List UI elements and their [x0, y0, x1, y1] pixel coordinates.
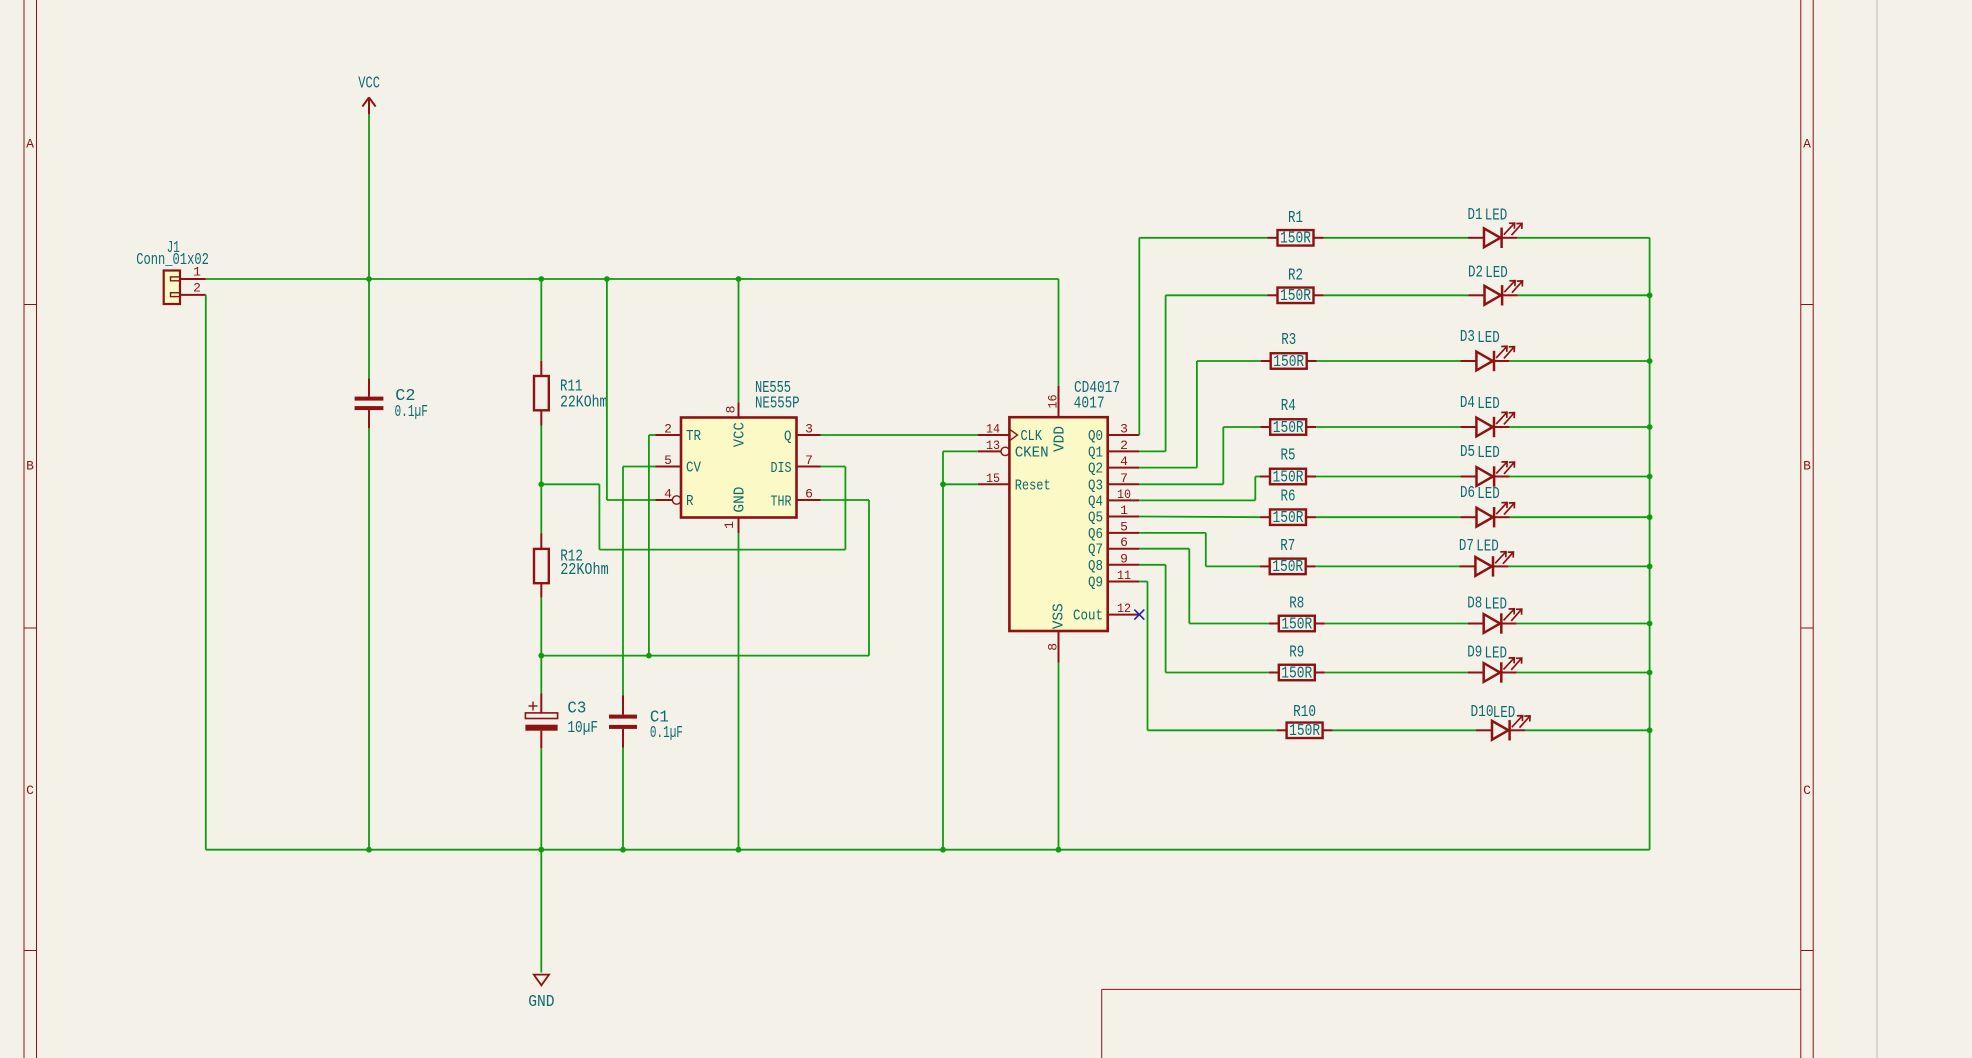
svg-text:C3: C3 [567, 700, 586, 719]
svg-text:TR: TR [686, 428, 701, 445]
junction gnd bus C2 [366, 847, 372, 853]
svg-text:6: 6 [1120, 535, 1128, 550]
svg-text:R2: R2 [1288, 266, 1303, 285]
svg-text:14: 14 [986, 422, 1000, 437]
svg-text:LED: LED [1485, 596, 1508, 615]
svg-text:THR: THR [771, 494, 792, 511]
wire [1324, 237, 1469, 239]
wire Q0 vertical [1138, 238, 1140, 435]
wire to DIS column [599, 549, 845, 551]
pin 10 Q4 [1088, 487, 1139, 511]
wire [1509, 426, 1649, 428]
svg-text:VCC: VCC [732, 422, 749, 447]
svg-text:2: 2 [193, 281, 201, 296]
wire ground bus [206, 849, 1650, 851]
svg-text:150R: 150R [1281, 615, 1312, 634]
svg-text:Q8: Q8 [1088, 558, 1103, 575]
junction cathode bus [1647, 670, 1653, 676]
resistor R3 150R [1261, 331, 1317, 372]
wire C3 node horizontal [541, 655, 869, 657]
svg-text:LED: LED [1485, 207, 1508, 226]
svg-text:LED: LED [1477, 395, 1500, 414]
wire [540, 598, 542, 656]
wire [540, 850, 542, 973]
svg-text:CLK: CLK [1021, 428, 1043, 445]
wire [1649, 238, 1651, 850]
junction reset branch [604, 276, 610, 282]
wire [1517, 623, 1650, 625]
wire [1316, 476, 1461, 478]
wire Q0 to R1 [1139, 237, 1267, 239]
svg-text:4017: 4017 [1074, 394, 1105, 413]
svg-text:6: 6 [805, 487, 813, 502]
junction cathode bus [1647, 358, 1653, 364]
wire Q2 vertical [1196, 361, 1198, 468]
wire [1508, 565, 1649, 567]
svg-text:5: 5 [664, 453, 672, 468]
pin 3 Q [784, 422, 821, 446]
wire Q3 stub run [1139, 483, 1223, 485]
wire [1316, 426, 1460, 428]
wire [738, 279, 740, 402]
svg-text:Q0: Q0 [1088, 428, 1103, 445]
pin 5 Q6 [1088, 519, 1139, 543]
svg-text:D5: D5 [1460, 443, 1475, 462]
junction cathode bus [1647, 514, 1653, 520]
junction R11 [538, 276, 544, 282]
junction gnd bus C3/GND [538, 847, 544, 853]
wire [1058, 663, 1060, 850]
wire Q2 to R3 [1197, 360, 1261, 362]
junction gnd bus U1 GND [736, 847, 742, 853]
svg-text:150R: 150R [1281, 664, 1312, 683]
svg-text:R4: R4 [1281, 397, 1296, 416]
LED D1 [1468, 206, 1523, 248]
svg-text:4: 4 [664, 487, 672, 502]
svg-text:R: R [686, 493, 694, 510]
wire CV/C1 vertical [622, 467, 624, 696]
svg-text:4: 4 [1120, 454, 1128, 469]
wire [540, 279, 542, 361]
resistor R6 150R [1260, 487, 1316, 528]
wire [1325, 623, 1468, 625]
svg-text:16: 16 [1046, 395, 1061, 409]
svg-text:150R: 150R [1280, 287, 1311, 306]
svg-text:A: A [1803, 137, 1811, 152]
pin 6 Q7 [1088, 535, 1139, 559]
svg-text:8: 8 [724, 406, 739, 414]
wire [942, 451, 944, 849]
svg-text:GND: GND [732, 487, 749, 513]
no-connect X on Cout [1134, 610, 1144, 620]
svg-text:R1: R1 [1288, 209, 1303, 228]
wire [943, 483, 978, 485]
wire [205, 295, 207, 850]
junction VCC/C2 [366, 276, 372, 282]
wire [1510, 476, 1650, 478]
LED D5 [1460, 443, 1515, 487]
junction C3 node [538, 653, 544, 659]
svg-text:12: 12 [1117, 601, 1131, 616]
pin 4 R (inverted) [656, 487, 694, 511]
svg-text:D1: D1 [1468, 206, 1483, 225]
svg-text:LED: LED [1493, 704, 1516, 723]
svg-text:LED: LED [1476, 538, 1499, 557]
wire [943, 450, 978, 452]
svg-text:D2: D2 [1468, 263, 1483, 282]
wire [1317, 360, 1461, 362]
wire [821, 434, 980, 436]
wire Q4 vertical [1254, 477, 1256, 501]
junction cathode bus [1647, 621, 1653, 627]
svg-text:B: B [26, 459, 34, 474]
wire [540, 748, 542, 850]
pin 12 Cout [1073, 601, 1139, 625]
wire Q9 to R10 [1148, 729, 1277, 731]
svg-text:150R: 150R [1280, 230, 1311, 249]
junction cathode bus [1647, 424, 1653, 430]
svg-text:Q7: Q7 [1088, 542, 1103, 559]
LED D9 [1467, 644, 1522, 683]
resistor R2 150R [1268, 266, 1324, 306]
pin 6 THR [771, 487, 821, 511]
title block top/left edge [1102, 989, 1801, 1058]
junction cathode bus [1647, 474, 1653, 480]
resistor R12 22KOhm [534, 534, 609, 598]
pin 1 Q5 [1088, 503, 1139, 527]
svg-text:Q1: Q1 [1088, 444, 1103, 461]
sheet frame left column [24, 0, 37, 1058]
wire Q1 vertical [1165, 295, 1167, 451]
svg-text:2: 2 [664, 422, 672, 437]
wire Q6 vertical [1205, 533, 1207, 567]
svg-text:CV: CV [686, 460, 701, 477]
svg-text:C: C [1803, 783, 1811, 798]
svg-text:1: 1 [722, 521, 737, 529]
pin 14 CLK [978, 422, 1042, 446]
svg-text:D8: D8 [1467, 595, 1482, 614]
wire [1509, 360, 1649, 362]
wire THR vertical [868, 500, 870, 656]
svg-text:Q4: Q4 [1088, 493, 1103, 510]
svg-text:1: 1 [1120, 503, 1128, 518]
wire Q7 stub run [1139, 548, 1189, 550]
svg-text:VDD: VDD [1052, 426, 1069, 452]
svg-text:LED: LED [1485, 264, 1508, 283]
svg-text:R9: R9 [1289, 644, 1304, 663]
wire Q9 stub run [1139, 581, 1147, 583]
junction cathode bus [1647, 292, 1653, 298]
wire Q2 stub run [1139, 467, 1197, 469]
wire [540, 426, 542, 534]
wire [1518, 294, 1650, 296]
wire Q8 vertical [1165, 565, 1167, 673]
svg-text:150R: 150R [1273, 353, 1304, 372]
wire [368, 114, 370, 279]
resistor R1 150R [1268, 209, 1324, 249]
svg-text:1: 1 [193, 265, 201, 280]
svg-text:10µF: 10µF [567, 719, 598, 738]
wire Q9 vertical [1147, 582, 1149, 731]
pin 16 VDD top [1046, 386, 1069, 452]
svg-text:22KOhm: 22KOhm [560, 393, 607, 412]
svg-text:150R: 150R [1289, 722, 1320, 741]
svg-text:150R: 150R [1273, 419, 1304, 438]
wire Q1 stub run [1139, 450, 1165, 452]
wire Q4 to R5 [1255, 476, 1260, 478]
wire [622, 748, 624, 850]
svg-text:DIS: DIS [771, 460, 792, 477]
op-amp timer U1 NE555 [681, 379, 800, 518]
wire [1325, 672, 1468, 674]
pin 13 CKEN (inverted) [978, 438, 1049, 462]
svg-text:13: 13 [986, 438, 1000, 453]
resistor R5 150R [1260, 447, 1316, 488]
wire VCC rail [206, 278, 1059, 280]
wire elbow down [598, 484, 600, 549]
svg-text:R3: R3 [1281, 331, 1296, 350]
wire [1316, 516, 1461, 518]
svg-text:LED: LED [1485, 645, 1508, 664]
pin 7 DIS [771, 453, 821, 477]
svg-text:D4: D4 [1460, 394, 1475, 413]
junction cathode bus [1647, 727, 1653, 733]
svg-text:D9: D9 [1467, 644, 1482, 663]
pin 1 GND bottom [722, 487, 749, 534]
svg-text:R8: R8 [1289, 595, 1304, 614]
wire Q5 to R6 [1139, 516, 1260, 519]
svg-text:LED: LED [1477, 329, 1500, 348]
svg-text:GND: GND [528, 993, 554, 1012]
svg-text:R7: R7 [1280, 537, 1295, 556]
resistor R8 150R [1269, 595, 1325, 635]
wire pin4 vertical [606, 279, 608, 500]
capacitor C1 0.1uF [609, 696, 683, 748]
svg-text:Q6: Q6 [1088, 526, 1103, 543]
svg-text:D6: D6 [1460, 484, 1475, 503]
svg-text:R6: R6 [1281, 487, 1296, 506]
svg-text:11: 11 [1117, 568, 1131, 583]
svg-text:3: 3 [805, 422, 813, 437]
svg-text:Cout: Cout [1073, 608, 1103, 625]
wire CV horizontal [623, 466, 656, 468]
wire Q8 stub run [1139, 564, 1165, 566]
wire TR vertical [648, 435, 650, 656]
junction reset branch [940, 481, 946, 487]
wire Q8 to R9 [1166, 672, 1269, 674]
pin 5 CV [656, 453, 702, 477]
ground symbol GND [528, 975, 554, 1012]
sheet frame right column [1801, 0, 1813, 1058]
wire [1525, 729, 1650, 731]
pin 4 Q2 [1088, 454, 1139, 478]
wire Q6 stub run [1139, 532, 1206, 534]
page edge [1876, 0, 1878, 1058]
svg-text:7: 7 [1120, 471, 1128, 486]
wire [1333, 729, 1476, 731]
svg-text:22KOhm: 22KOhm [560, 561, 609, 580]
svg-text:5: 5 [1120, 519, 1128, 534]
wire [1316, 565, 1460, 567]
svg-text:Q: Q [784, 429, 792, 446]
pin 2 TR [656, 422, 702, 446]
resistor R7 150R [1260, 537, 1316, 577]
svg-text:VCC: VCC [358, 75, 380, 94]
frame row letters [26, 137, 1811, 799]
svg-text:Q3: Q3 [1088, 477, 1103, 494]
svg-text:R5: R5 [1281, 447, 1296, 466]
svg-text:LED: LED [1477, 485, 1500, 504]
svg-text:9: 9 [1120, 551, 1128, 566]
svg-text:B: B [1803, 459, 1811, 474]
svg-text:CKEN: CKEN [1015, 444, 1049, 461]
counter U2 CD4017 [1009, 379, 1120, 631]
svg-text:150R: 150R [1273, 509, 1304, 528]
capacitor C2 [355, 378, 428, 428]
connector J1 Conn_01x02 [136, 239, 209, 304]
junction gnd bus U2 reset [940, 847, 946, 853]
svg-text:150R: 150R [1273, 468, 1304, 487]
wire [1517, 237, 1650, 239]
pin 3 Q0 [1088, 422, 1139, 446]
junction R11/R12 node [538, 481, 544, 487]
wire Q4 stub run [1139, 499, 1255, 501]
wire Q7 vertical [1188, 549, 1190, 624]
junction cathode bus [1647, 564, 1653, 570]
resistor R9 150R [1269, 644, 1325, 684]
wire Q6 to R7 [1206, 565, 1260, 567]
resistor R4 150R [1260, 397, 1316, 438]
wire [1517, 672, 1650, 674]
pin 11 Q9 [1088, 568, 1139, 592]
svg-text:A: A [26, 137, 34, 152]
junction TR/C3 node [646, 653, 652, 659]
junction U1 VCC [736, 276, 742, 282]
svg-text:D10: D10 [1471, 703, 1494, 722]
wire Q3 vertical [1222, 427, 1224, 484]
resistor R11 22KOhm [534, 361, 607, 426]
wire DIS vertical [844, 467, 846, 550]
svg-text:Q9: Q9 [1088, 575, 1103, 592]
wire [1058, 279, 1060, 386]
LED D6 [1460, 484, 1515, 527]
wire THR stub link [821, 499, 870, 501]
resistor R10 150R [1277, 703, 1333, 741]
svg-text:3: 3 [1120, 422, 1128, 437]
wire DIS stub link [821, 466, 846, 468]
svg-text:15: 15 [986, 471, 1000, 486]
wire Q3 to R4 [1223, 426, 1260, 428]
svg-text:0.1µF: 0.1µF [650, 724, 683, 743]
svg-text:NE555P: NE555P [755, 395, 800, 414]
power flag VCC [358, 75, 380, 115]
svg-text:R10: R10 [1293, 703, 1316, 722]
LED D8 [1467, 595, 1522, 634]
pin 8 VSS bottom [1046, 603, 1068, 662]
capacitor C3 10uF [525, 656, 598, 748]
junction gnd bus U2 VSS [1056, 847, 1062, 853]
pin 2 Q1 [1088, 438, 1139, 462]
pin 8 VCC top [724, 402, 749, 447]
svg-text:Reset: Reset [1015, 477, 1051, 494]
wire [1510, 516, 1650, 518]
pin 15 Reset [978, 471, 1051, 495]
wire Q1 to R2 [1166, 294, 1268, 296]
svg-text:VSS: VSS [1051, 603, 1068, 629]
wire [738, 533, 740, 849]
svg-text:10: 10 [1117, 487, 1131, 502]
svg-text:LED: LED [1477, 444, 1500, 463]
wire [368, 279, 370, 378]
svg-text:D7: D7 [1459, 537, 1474, 556]
svg-text:D3: D3 [1460, 328, 1475, 347]
svg-text:2: 2 [1120, 438, 1128, 453]
svg-text:Q2: Q2 [1088, 461, 1103, 478]
svg-text:Q5: Q5 [1088, 510, 1103, 527]
LED D10 [1471, 703, 1531, 740]
svg-text:8: 8 [1046, 643, 1061, 651]
wire Q7 to R8 [1189, 623, 1269, 625]
wire [368, 428, 370, 850]
svg-text:7: 7 [805, 453, 813, 468]
junction gnd bus C1 [620, 847, 626, 853]
wire R11/R12 node right [541, 483, 599, 485]
wire pin4 horizontal [607, 499, 656, 501]
wire TR stub link [649, 434, 656, 436]
svg-text:150R: 150R [1272, 558, 1303, 577]
LED D3 [1460, 328, 1515, 371]
svg-text:0.1µF: 0.1µF [395, 403, 428, 422]
pin 9 Q8 [1088, 551, 1139, 575]
pin 7 Q3 [1088, 471, 1139, 495]
wire [1324, 294, 1469, 296]
LED D7 [1459, 537, 1514, 577]
svg-text:C: C [26, 783, 34, 798]
LED D4 [1460, 394, 1515, 437]
LED D2 [1468, 263, 1523, 305]
